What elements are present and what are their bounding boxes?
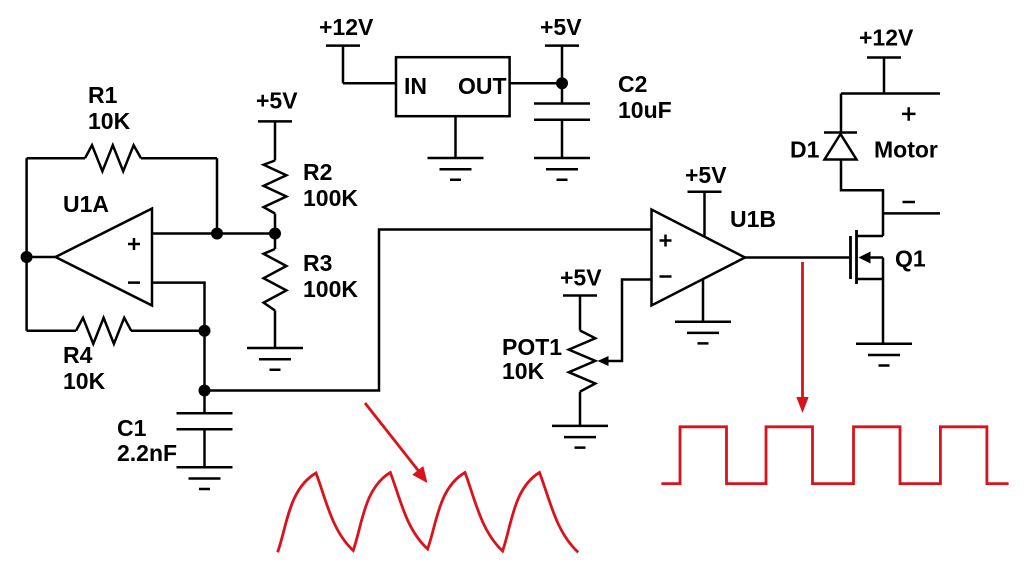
power +5V U1B	[688, 192, 722, 237]
wire U1A inverting input	[152, 283, 205, 331]
svg-text:+12V: +12V	[859, 25, 914, 51]
node junction R1/+input	[211, 228, 223, 240]
power +5V rail C2	[545, 46, 579, 104]
Q1 arrow	[859, 252, 871, 264]
wire R3 to ground	[274, 311, 277, 349]
potentiometer POT1	[569, 331, 596, 392]
node C1 top	[199, 385, 211, 397]
wire U1B output to gate	[745, 256, 849, 259]
motor minus sign	[903, 201, 916, 204]
svg-text:Q1: Q1	[895, 246, 926, 272]
arrow to sawtooth	[365, 403, 419, 472]
wire U1A output left vertical	[27, 158, 56, 331]
svg-text:+5V: +5V	[540, 14, 582, 40]
label OUT	[458, 73, 507, 99]
wire U1B negative supply	[702, 279, 705, 322]
power +12V motor	[867, 58, 901, 94]
ground U1B	[675, 322, 731, 344]
resistor R4	[76, 318, 131, 344]
ground C2	[534, 158, 590, 180]
op-amp U1A	[56, 209, 153, 306]
ground Q1	[856, 344, 912, 366]
svg-text:10K: 10K	[502, 358, 545, 384]
svg-text:10K: 10K	[88, 108, 131, 134]
svg-text:+5V: +5V	[685, 162, 727, 188]
op-amp U1B	[652, 210, 746, 306]
wire regulator input	[343, 82, 396, 85]
wire U1B inverting input to wiper	[607, 280, 652, 362]
wire sawtooth output run	[205, 230, 652, 391]
svg-text:C1: C1	[117, 415, 147, 441]
ground C1	[177, 467, 233, 489]
power +5V POT1	[563, 296, 597, 331]
wire regulator output	[510, 82, 562, 85]
svg-text:Motor: Motor	[874, 137, 938, 163]
svg-text:10uF: 10uF	[618, 97, 672, 123]
svg-text:100K: 100K	[303, 276, 358, 302]
wire U1A noninverting input row	[152, 232, 275, 235]
label C2 10uF	[618, 71, 672, 123]
svg-text:10K: 10K	[63, 368, 106, 394]
ground R3	[247, 348, 303, 370]
wire R1 right vertical	[216, 158, 219, 233]
svg-text:C2: C2	[618, 71, 647, 97]
svg-text:POT1: POT1	[502, 334, 562, 360]
power +5V rail R2	[258, 121, 292, 160]
svg-text:+12V: +12V	[319, 14, 374, 40]
wire R1 top-left row	[27, 157, 217, 160]
label POT1 10K	[502, 334, 562, 384]
wire inverting node down to C1	[203, 331, 206, 391]
svg-text:2.2nF: 2.2nF	[117, 440, 177, 466]
label D1	[790, 137, 820, 163]
node U1A output	[21, 251, 33, 263]
svg-text:R4: R4	[63, 342, 93, 368]
resistor R1	[85, 145, 141, 171]
svg-text:R1: R1	[88, 82, 118, 108]
wiper arrow POT1	[598, 356, 609, 366]
capacitor C2	[534, 104, 590, 159]
wire regulator ground pin	[454, 116, 457, 158]
transistor Q1 MOSFET	[851, 230, 884, 284]
label Motor	[874, 137, 938, 163]
label U1A	[63, 191, 109, 217]
square wave annotation	[661, 427, 1008, 484]
label R1 10K	[88, 82, 131, 134]
voltage regulator U2 box	[396, 57, 510, 116]
svg-text:R3: R3	[303, 250, 332, 276]
node junction R2/R3 divider	[269, 228, 281, 240]
svg-text:U1A: U1A	[63, 191, 109, 217]
wire motor minus bar	[883, 212, 940, 215]
arrow to square wave	[801, 262, 804, 399]
svg-text:R2: R2	[303, 159, 332, 185]
label IN	[404, 73, 427, 99]
diode D1	[824, 133, 857, 160]
wire motor plus bar	[841, 92, 940, 95]
label R4 10K	[63, 342, 106, 394]
label Q1	[895, 246, 926, 272]
wire R2 to R3	[274, 214, 277, 250]
sawtooth waveform annotation	[278, 473, 579, 553]
resistor R3	[264, 249, 287, 311]
ground regulator	[428, 158, 484, 180]
svg-text:+5V: +5V	[560, 265, 602, 291]
capacitor C1	[177, 391, 233, 468]
wire R4 row	[27, 330, 205, 333]
node R4/C1 junction	[199, 325, 211, 337]
label U1B	[730, 206, 776, 232]
label R2 100K	[303, 159, 358, 211]
svg-text:+5V: +5V	[256, 88, 298, 114]
wire Q1 source to ground	[882, 258, 885, 344]
wire D1 cathode to drain	[841, 160, 883, 237]
svg-text:D1: D1	[790, 137, 820, 163]
wire POT1 to ground	[579, 392, 582, 426]
label R3 100K	[303, 250, 358, 302]
svg-text:OUT: OUT	[458, 73, 507, 99]
node C2 top	[556, 77, 568, 89]
svg-text:IN: IN	[404, 73, 427, 99]
power +12V regulator	[326, 46, 360, 84]
ground POT1	[552, 426, 608, 448]
motor plus sign	[902, 107, 916, 121]
wire D1 anode drop	[840, 94, 843, 133]
label C1 2.2nF	[117, 415, 177, 466]
svg-text:100K: 100K	[303, 185, 358, 211]
resistor R2	[264, 161, 287, 214]
svg-text:U1B: U1B	[730, 206, 776, 232]
